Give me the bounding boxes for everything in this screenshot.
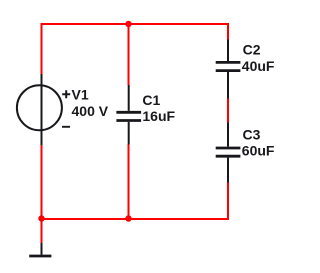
svg-text:C2: C2 — [243, 42, 261, 58]
ground — [29, 243, 51, 256]
capacitor C3 — [216, 123, 241, 183]
voltage source V1 symbol — [17, 74, 62, 145]
wire right vertical middle (C2 to C3) — [227, 98, 229, 123]
V1 minus terminal mark — [62, 126, 70, 128]
svg-text:60uF: 60uF — [242, 143, 275, 159]
capacitor C2 — [216, 40, 241, 99]
svg-text:C1: C1 — [142, 92, 160, 108]
capacitor C1 — [116, 85, 141, 145]
wire top horizontal net — [41, 23, 229, 25]
wire left vertical lower (V1 pin to bottom rail) — [41, 145, 43, 219]
svg-text:400 V: 400 V — [72, 103, 109, 119]
wire middle vertical lower (C1 pin to bottom rail) — [128, 144, 130, 219]
junction top middle — [125, 21, 131, 27]
wire right vertical upper (top rail to C2 pin) — [227, 23, 229, 40]
V1 plus terminal mark — [62, 90, 70, 98]
wire left vertical upper (top rail to V1 pin) — [41, 23, 43, 74]
junction bottom middle — [125, 215, 131, 221]
wire middle vertical upper (top rail to C1 pin) — [128, 23, 130, 85]
svg-text:V1: V1 — [72, 87, 89, 103]
wire right vertical lower (C3 pin to bottom rail) — [227, 182, 229, 220]
svg-text:C3: C3 — [243, 127, 261, 143]
wire bottom horizontal net — [41, 218, 230, 220]
svg-text:16uF: 16uF — [142, 108, 175, 124]
junction bottom left — [38, 215, 44, 221]
svg-text:40uF: 40uF — [242, 58, 275, 74]
wire ground stub (junction to ground symbol) — [41, 219, 43, 243]
